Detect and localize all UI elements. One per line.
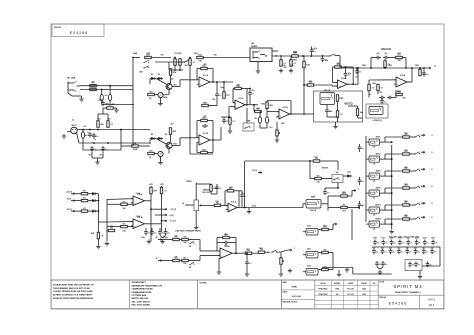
wire (330, 160, 338, 162)
connector J1 mic XLR (71, 127, 78, 134)
wire (339, 56, 341, 68)
resistor R40 (292, 55, 299, 57)
capacitor C1 47u (81, 132, 84, 138)
svg-text:6k8: 6k8 (98, 119, 101, 121)
resistor R30 feedback (235, 87, 242, 89)
svg-text:6k8: 6k8 (100, 124, 103, 126)
resistor R21 (148, 152, 155, 154)
wire (101, 103, 103, 105)
wire (366, 209, 369, 211)
resistor R90 (403, 136, 410, 138)
ground (63, 134, 65, 136)
resistor R60 (108, 229, 115, 231)
wire (151, 208, 163, 210)
svg-text:2dB PAD / PREAMP MUTE: 2dB PAD / PREAMP MUTE (175, 229, 201, 232)
svg-text:RES: RES (404, 215, 407, 217)
low eq box (366, 104, 388, 118)
resistor R43 (303, 61, 305, 68)
svg-text:RES: RES (83, 208, 86, 210)
capacitor C42 (159, 230, 161, 232)
capacitor C45 (241, 193, 243, 195)
resistor R70 (313, 160, 320, 162)
pot RV6 pan (306, 200, 321, 209)
svg-text:RES: RES (91, 87, 94, 89)
ground (160, 102, 162, 104)
resistor R84 feedback (223, 236, 230, 238)
wire (385, 209, 392, 211)
capacitor C12 (223, 118, 225, 120)
resistor R82 (173, 259, 180, 261)
svg-text:RES: RES (404, 184, 407, 186)
wire (200, 250, 220, 252)
wire (366, 192, 369, 194)
resistor R31 (255, 110, 262, 112)
wire (332, 224, 334, 230)
svg-text:CH No: CH No (320, 283, 326, 285)
drawn/date box (282, 280, 315, 309)
ground (229, 129, 231, 131)
pot RV15 MON1 (369, 207, 380, 213)
input arrow B1 (158, 239, 162, 241)
svg-text:47n: 47n (377, 52, 380, 55)
svg-text:47p: 47p (325, 59, 328, 62)
svg-text:TR1: TR1 (173, 84, 177, 86)
svg-text:47u: 47u (212, 98, 215, 101)
svg-text:2k2: 2k2 (185, 65, 188, 67)
svg-text:WITHOUT PRIOR WRITTEN PERMISSI: WITHOUT PRIOR WRITTEN PERMISSION. (53, 298, 94, 300)
svg-text:RES: RES (122, 224, 125, 226)
pot RV1 gain (158, 92, 163, 97)
svg-text:100n: 100n (381, 238, 385, 240)
arrow mix L (351, 191, 353, 197)
resistor R57 (368, 84, 370, 91)
resistor R83 (182, 259, 189, 261)
svg-text:-17 (V): -17 (V) (251, 170, 257, 172)
connector line input (133, 57, 140, 59)
resistor R87 (322, 228, 329, 230)
svg-text:IC2-B: IC2-B (283, 107, 289, 109)
ground (106, 242, 108, 244)
wire (332, 253, 334, 270)
arrow aux out (421, 216, 425, 218)
pot RV12 AUX2 (369, 156, 380, 162)
ground (257, 69, 259, 71)
capacitor C46 (324, 190, 326, 192)
capacitor C7 47u (100, 94, 103, 100)
svg-text:RES: RES (404, 201, 407, 203)
pot RV1-b gain (158, 151, 163, 156)
svg-text:100n: 100n (406, 238, 410, 240)
svg-text:0 (V): 0 (V) (67, 199, 71, 201)
wire (366, 158, 369, 160)
resistor R80 (173, 238, 180, 240)
resistor R4 100R (132, 145, 139, 147)
ground (280, 69, 282, 71)
capacitor C31b (345, 72, 347, 74)
resistor R12 (179, 59, 181, 66)
svg-text:ISS: ISS (373, 283, 376, 285)
svg-text:PRE-PROD: PRE-PROD (319, 289, 329, 291)
resistor R59 (396, 93, 403, 95)
resistor R41 (280, 60, 282, 67)
svg-text:ISS3: ISS3 (362, 294, 366, 296)
resistor R65 (210, 185, 212, 192)
resistor R95 (403, 218, 410, 220)
svg-text:RES: RES (316, 176, 319, 178)
connector JK2 insert (250, 48, 272, 62)
arrow mix R (352, 207, 356, 209)
drawing number box (top left) (52, 24, 104, 37)
resistor R16 feedback (201, 67, 208, 69)
svg-text:47n: 47n (385, 52, 388, 55)
aux bus line 1 (365, 136, 367, 222)
diode D12 (92, 199, 95, 202)
svg-text:6k8: 6k8 (360, 112, 363, 114)
svg-text:R58: R58 (372, 83, 375, 85)
wire (246, 108, 248, 123)
svg-text:SPIRIT M4: SPIRIT M4 (393, 284, 422, 289)
svg-text:RES: RES (404, 167, 407, 169)
op-amp IC3-B low eq (396, 77, 407, 87)
wire (147, 223, 162, 225)
svg-text:09-10-96: 09-10-96 (292, 296, 302, 298)
svg-text:-17 (V): -17 (V) (170, 221, 176, 223)
wire (321, 178, 332, 180)
wire output (290, 113, 304, 115)
capacitor C38 (381, 99, 383, 101)
wire (303, 231, 306, 233)
wire (91, 152, 93, 158)
issue table (315, 280, 378, 309)
capacitor C22 47u (265, 117, 268, 123)
resistor R86 (258, 251, 265, 253)
svg-text:100n: 100n (415, 238, 419, 240)
op-amp IC5-A post fade (228, 203, 237, 212)
svg-text:IC5-A: IC5-A (231, 200, 237, 203)
wire (212, 139, 221, 141)
resistor R22 feedback (201, 119, 208, 121)
capacitor C8 47u (109, 94, 112, 100)
wire row bus (372, 246, 437, 248)
svg-text:HIGH EQ: HIGH EQ (381, 49, 391, 51)
resistor R19 (189, 59, 191, 66)
diode D4 (158, 137, 161, 140)
svg-text:RES: RES (83, 191, 86, 193)
svg-text:RES: RES (183, 258, 186, 260)
pot RV8 (306, 229, 318, 236)
capacitor C36 (379, 97, 381, 99)
diode D11 (92, 192, 95, 195)
wire (407, 81, 412, 83)
resistor R17 (223, 92, 225, 99)
resistor R77 (81, 210, 88, 212)
svg-text:RES: RES (122, 201, 125, 203)
resistor R61 (121, 203, 128, 205)
wire (371, 57, 375, 59)
wire to mute (244, 161, 246, 208)
resistor R75 (81, 193, 88, 195)
wire (195, 211, 197, 226)
resistor R67 feedback (227, 190, 234, 192)
wire (107, 198, 133, 201)
svg-text:100n: 100n (423, 238, 427, 240)
arrow aux out (421, 168, 425, 170)
svg-text:IC4-B: IC4-B (136, 215, 141, 218)
capacitor C44 (216, 185, 218, 187)
capacitor C33 (375, 57, 377, 59)
wire (120, 130, 122, 151)
svg-text:RES: RES (404, 150, 407, 152)
svg-text:0 (V): 0 (V) (170, 215, 175, 217)
title box (378, 280, 444, 295)
diode D2 (158, 77, 161, 80)
diode D10 (347, 175, 350, 178)
arrow aux out (421, 185, 425, 187)
wire feedback (267, 100, 291, 102)
svg-text:10K LOG: 10K LOG (202, 192, 210, 194)
capacitor C34 (383, 57, 385, 59)
ground (148, 240, 150, 242)
svg-text:R70: R70 (314, 157, 317, 159)
capacitor C11 (202, 125, 204, 127)
svg-text:INSERT: INSERT (251, 46, 258, 48)
op-amp IC2-A (235, 100, 245, 110)
notes box (198, 280, 282, 309)
wire (151, 57, 171, 59)
resistor R42 (290, 60, 292, 67)
svg-text:RES: RES (323, 250, 326, 252)
svg-text:R54: R54 (397, 52, 400, 55)
wire (168, 90, 170, 95)
svg-text:R13: R13 (198, 55, 201, 57)
junction (265, 55, 266, 56)
capacitor C71 (382, 261, 384, 263)
svg-text:47u: 47u (312, 48, 315, 51)
resistor R76 (81, 199, 88, 201)
ground (248, 210, 250, 212)
svg-text:PAN: PAN (311, 196, 316, 199)
wire pan input (303, 203, 306, 205)
wire (385, 175, 392, 177)
resistor R71 (315, 177, 322, 179)
wire main eq output bus (337, 67, 427, 69)
capacitor C61 (359, 178, 361, 180)
svg-text:FWD: FWD (292, 286, 297, 288)
wire insert feed (203, 57, 250, 59)
resistor R5 (90, 85, 97, 87)
svg-text:47p: 47p (348, 72, 351, 75)
svg-text:IC4-A: IC4-A (136, 192, 141, 195)
resistor R55v (384, 61, 386, 68)
wire (385, 223, 392, 225)
switch S14 (414, 204, 415, 205)
svg-text:R20: R20 (173, 131, 176, 133)
wire vertical feed bus (189, 65, 191, 154)
svg-text:ML: ML (336, 294, 338, 296)
ground (97, 160, 99, 162)
svg-text:CRANBORNE HOUSE,: CRANBORNE HOUSE, (132, 288, 154, 291)
resistor R93 (403, 187, 410, 189)
wire (221, 116, 230, 118)
capacitor C43 (165, 230, 167, 232)
pot RV11 AUX1 (369, 139, 380, 145)
svg-text:+17 (V): +17 (V) (170, 209, 177, 211)
svg-text:R32: R32 (269, 105, 272, 107)
resistor R91 (403, 153, 410, 155)
output arrow (288, 249, 292, 251)
svg-text:100n: 100n (373, 238, 377, 240)
svg-text:2k2: 2k2 (171, 79, 174, 81)
capacitor C3 (93, 133, 95, 135)
switch S10 (414, 136, 415, 137)
wire to preamp (121, 145, 132, 147)
wire (212, 81, 233, 83)
capacitor C51 (246, 260, 248, 262)
svg-text:DRG NO.: DRG NO. (379, 297, 387, 299)
capacitor C70 (376, 261, 378, 263)
resistor R63 (150, 187, 152, 194)
svg-text:IC3-B: IC3-B (400, 75, 406, 77)
svg-text:DATE: DATE (348, 282, 354, 285)
resistor R11 (174, 59, 176, 66)
svg-text:47p: 47p (252, 89, 255, 92)
svg-text:0 (V): 0 (V) (252, 205, 256, 207)
svg-text:HPF: HPF (281, 123, 284, 125)
resistor R52 (336, 111, 338, 118)
wire line cold (80, 89, 133, 91)
junction (174, 69, 176, 71)
svg-text:FAX: 01707 660482: FAX: 01707 660482 (132, 304, 151, 307)
wire supply left bus (106, 199, 108, 241)
svg-text:10K LIN: 10K LIN (310, 210, 317, 212)
resistor R88 (322, 251, 329, 253)
wire (174, 65, 176, 70)
ground (379, 270, 381, 272)
svg-text:MUTE: MUTE (322, 168, 329, 170)
svg-text:J1: J1 (72, 120, 74, 122)
svg-text:RES: RES (404, 133, 407, 135)
svg-text:MON1: MON1 (375, 204, 380, 206)
resistor R6 (90, 88, 97, 90)
resistor R32 (266, 102, 268, 109)
wire (321, 203, 328, 205)
switch SW7 (271, 252, 272, 253)
resistor R49 input (307, 84, 314, 86)
resistor R64 (160, 187, 162, 194)
wire (366, 175, 369, 177)
ground (280, 272, 282, 274)
svg-text:COPIED, REPRODUCED OR DISCLOSE: COPIED, REPRODUCED OR DISCLOSED (53, 291, 93, 293)
svg-text:INITIAL: INITIAL (334, 282, 341, 285)
wire (259, 125, 261, 128)
capacitor C37 (387, 97, 389, 99)
svg-text:MID EQ: MID EQ (344, 103, 352, 105)
arrow aux out (421, 202, 425, 204)
op-amp IC6-A (220, 248, 232, 259)
svg-text:100n: 100n (398, 238, 402, 240)
svg-text:POTTERS BAR,: POTTERS BAR, (132, 294, 148, 297)
wire (267, 111, 279, 113)
svg-text:DRN: DRN (283, 282, 288, 284)
resistor R58 (377, 84, 379, 91)
capacitor C20 (249, 91, 251, 93)
wire (366, 141, 369, 143)
svg-text:R23: R23 (202, 150, 205, 152)
capacitor C39 (423, 71, 425, 73)
svg-text:10-01-97: 10-01-97 (347, 294, 354, 296)
svg-text:ISS4: ISS4 (362, 288, 366, 291)
svg-text:100p: 100p (220, 87, 224, 89)
svg-text:JK1 LINE: JK1 LINE (67, 78, 76, 80)
resistor R20 (169, 128, 171, 135)
wire (98, 221, 107, 223)
svg-text:AUX1: AUX1 (376, 135, 381, 138)
svg-text:TEL: 01707 665000: TEL: 01707 665000 (132, 301, 151, 303)
wire (385, 141, 392, 143)
svg-text:100R: 100R (133, 149, 138, 151)
svg-text:100n: 100n (141, 237, 145, 239)
svg-text:IC2-A: IC2-A (239, 97, 245, 100)
wire cold (77, 133, 80, 144)
wire mid eq output (347, 83, 358, 85)
svg-text:THIS DRAWING WHICH IS NOT TO B: THIS DRAWING WHICH IS NOT TO BE (53, 287, 90, 290)
arrow 0V (163, 214, 167, 216)
svg-text:D3: D3 (151, 134, 153, 136)
wire (172, 86, 180, 88)
switch S11 (414, 153, 415, 154)
pot RV13 AUX3 (369, 173, 380, 179)
aux bus line 2 (391, 145, 393, 229)
capacitor C60 (359, 145, 361, 147)
wire lower bus (82, 140, 84, 150)
op-amp IC2-B HPF (279, 109, 290, 119)
svg-text:R18: R18 (203, 103, 206, 105)
ground (276, 138, 278, 140)
svg-text:RES: RES (183, 237, 186, 239)
svg-text:TR2: TR2 (173, 143, 177, 145)
ground (162, 240, 164, 242)
wire (331, 85, 333, 86)
resistor R66 10K (214, 204, 221, 206)
svg-text:NOTES: NOTES (200, 282, 208, 284)
resistor R73 route R (341, 206, 348, 208)
svg-text:D4: D4 (165, 133, 167, 136)
wire line hot (80, 85, 133, 87)
arrow aux out (421, 151, 425, 153)
pot RV2 HPF (276, 130, 278, 136)
pot RV4 low eq (369, 107, 383, 115)
resistor R15 (148, 93, 155, 95)
mid eq enclosure (314, 91, 363, 122)
capacitor C10 (216, 92, 218, 94)
svg-text:MON2: MON2 (375, 218, 380, 220)
arrow -17V (163, 220, 167, 222)
resistor R56v (419, 69, 421, 76)
svg-text:IC1-A: IC1-A (203, 74, 209, 77)
svg-text:6k8: 6k8 (108, 119, 111, 121)
resistor R72 route L (341, 195, 348, 197)
wire (439, 247, 441, 266)
svg-text:SOUNDCRAFT: SOUNDCRAFT (132, 281, 147, 284)
wire (233, 102, 235, 104)
output arrow to fader (427, 67, 431, 69)
resistor R54h (396, 56, 403, 58)
svg-text:AUX3: AUX3 (376, 169, 381, 172)
svg-text:DATE: DATE (283, 291, 289, 294)
capacitor C6 (102, 101, 104, 103)
svg-text:AUX2: AUX2 (376, 152, 381, 155)
svg-text:D1: D1 (151, 74, 153, 76)
